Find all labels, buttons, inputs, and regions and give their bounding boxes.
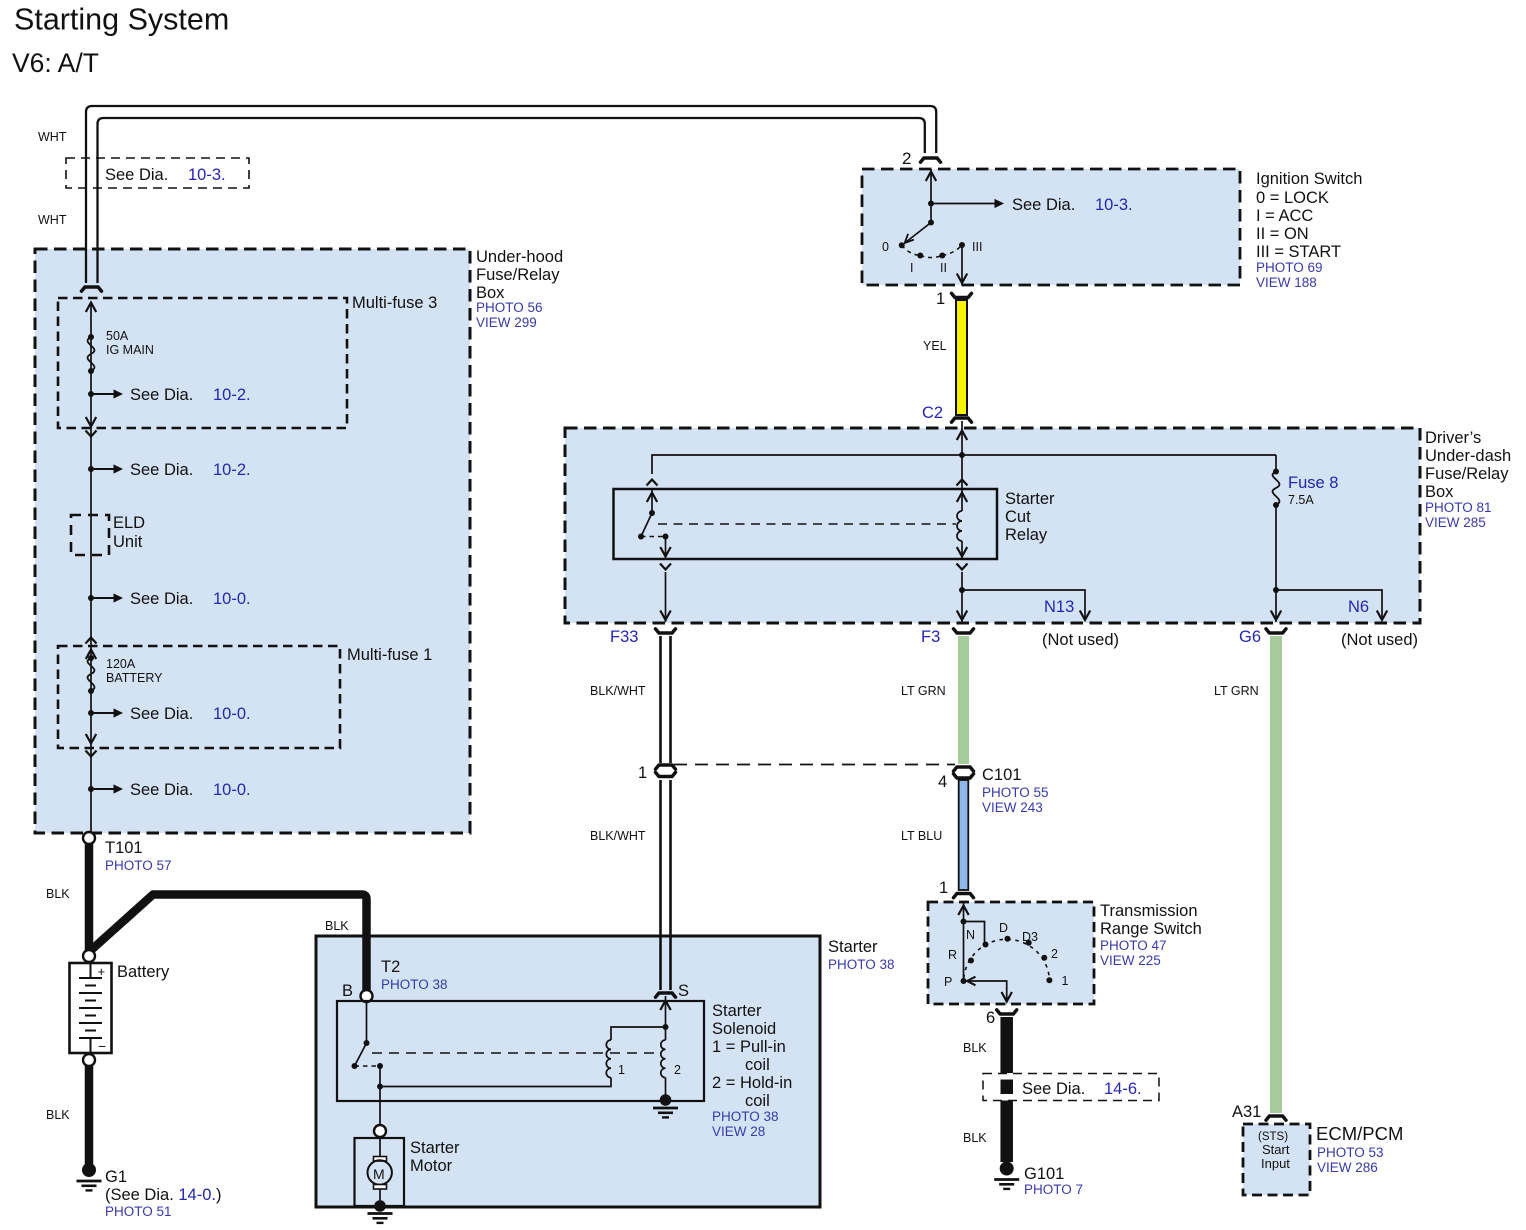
fuse 8 [1273,469,1279,475]
svg-text:PHOTO 57: PHOTO 57 [105,858,172,873]
connector cap bottom of LT BLU pin 1 [954,894,974,898]
ground at solenoid [660,1094,672,1106]
svg-text:10-0.: 10-0. [213,705,251,723]
TRS position contacts [961,978,967,984]
chevron below relay coil [957,564,968,570]
svg-text:G1: G1 [105,1168,127,1186]
svg-text:Range Switch: Range Switch [1100,920,1202,938]
svg-text:WHT: WHT [38,213,67,227]
svg-text:1: 1 [936,290,945,308]
svg-text:I: I [910,261,913,275]
svg-text:BATTERY: BATTERY [106,671,163,685]
node junction on top rail [959,452,965,458]
svg-text:coil: coil [745,1092,770,1110]
battery [70,963,112,1053]
svg-text:0 = LOCK: 0 = LOCK [1256,189,1329,207]
svg-text:0: 0 [882,240,889,254]
wire BLK thick from TRS to G101 [1000,1017,1013,1073]
wire WHT pair (inner) [98,118,925,283]
motor M [379,1137,381,1156]
terminal above battery [83,950,95,962]
chevron above multi-fuse 1 [86,638,97,644]
solenoid switch from B [366,1002,368,1043]
svg-text:B: B [342,982,353,1000]
svg-text:PHOTO 38: PHOTO 38 [828,957,895,972]
svg-text:Starter: Starter [712,1002,762,1020]
svg-text:2: 2 [674,1063,681,1077]
wire BLK/WHT pair F33 to break 1 [659,636,662,763]
svg-text:VIEW 243: VIEW 243 [982,800,1043,815]
coil 2 hold-in [665,1027,667,1040]
svg-text:M: M [373,1166,385,1182]
node see dia 10-0 (inside multi-fuse 1) [88,710,94,716]
starter solenoid box [337,1001,704,1101]
multi-fuse 3 box [58,298,347,428]
ground G101 [1000,1162,1014,1176]
svg-text:R: R [948,948,957,962]
svg-text:2: 2 [1051,947,1058,961]
coil 1 pull-in [606,1040,611,1078]
svg-text:BLK: BLK [46,1108,70,1122]
svg-text:II: II [940,261,947,275]
connector cap A31 [1266,1116,1286,1120]
fuse 50A IG MAIN [88,334,94,340]
wire BLK thick branch to starter B [89,895,367,992]
svg-text:Box: Box [1425,483,1454,501]
switch blade to position 0 [906,223,931,243]
svg-text:Starter: Starter [410,1139,460,1157]
connector cap F3 [954,629,974,633]
connector cap bottom of LT GRN [954,767,974,771]
wire LT GRN from G6 to A31 [1270,636,1282,1113]
svg-text:T101: T101 [105,839,143,857]
svg-text:Under-hood: Under-hood [476,248,563,266]
svg-text:PHOTO 56: PHOTO 56 [476,300,543,315]
svg-text:PHOTO 38: PHOTO 38 [381,977,448,992]
chevron into relay switch [647,480,658,486]
connector cap G6 [1266,629,1286,633]
dashed connector line 1 to 4 [674,764,955,766]
svg-text:N6: N6 [1348,598,1369,616]
wire BLK thick from T101 to battery [85,843,94,951]
svg-text:See Dia.: See Dia. [130,461,193,479]
see dia 14-6 box [983,1074,1159,1101]
svg-text:PHOTO 47: PHOTO 47 [1100,938,1167,953]
terminal below battery [83,1054,95,1066]
ground at starter motor [374,1200,386,1212]
svg-text:BLK: BLK [325,919,349,933]
svg-text:1: 1 [1062,974,1069,988]
svg-text:Battery: Battery [117,963,170,981]
wire coil 2 to ground [665,1078,667,1098]
multi-fuse 1 box [58,646,340,748]
main vertical wire in under-hood box [90,302,92,833]
svg-text:Driver’s: Driver’s [1425,429,1481,447]
svg-text:See Dia.: See Dia. [130,386,193,404]
svg-text:G101: G101 [1024,1165,1064,1183]
connector cap bottom of YEL wire C2 [952,418,972,422]
wire coil 1 bottom to switch [380,1078,611,1087]
svg-text:VIEW 225: VIEW 225 [1100,953,1161,968]
svg-text:6: 6 [986,1009,995,1027]
svg-text:BLK: BLK [963,1131,987,1145]
chevron below relay switch [660,564,671,570]
svg-text:See Dia.: See Dia. [130,781,193,799]
svg-text:IG MAIN: IG MAIN [106,343,154,357]
svg-text:III = START: III = START [1256,243,1341,261]
svg-text:P: P [944,975,952,989]
ignition switch box [862,169,1240,285]
wire from III contact down to terminal 1 [961,247,963,285]
svg-text:LT GRN: LT GRN [1214,684,1259,698]
svg-text:N: N [966,928,975,942]
connector cap top of YEL wire [952,293,972,297]
node see dia 10-0 (bottom) [88,786,94,792]
wire LT BLU [959,780,969,890]
svg-text:10-2.: 10-2. [213,461,251,479]
svg-text:BLK: BLK [46,887,70,901]
fuse 120A BATTERY [88,655,94,661]
connector cap wire break upper [656,765,676,769]
relay switch [651,489,653,513]
relay internal dashed link [658,523,956,525]
svg-text:VIEW 286: VIEW 286 [1317,1160,1378,1175]
svg-text:(Not used): (Not used) [1341,631,1418,649]
svg-text:VIEW 188: VIEW 188 [1256,275,1317,290]
position contacts I II III [917,253,923,259]
svg-text:VIEW 299: VIEW 299 [476,315,537,330]
svg-text:III: III [972,240,982,254]
svg-text:Unit: Unit [113,533,143,551]
svg-text:BLK: BLK [963,1041,987,1055]
svg-text:PHOTO 81: PHOTO 81 [1425,500,1492,515]
svg-text:PHOTO 51: PHOTO 51 [105,1204,172,1219]
dashed selector arc [964,939,1050,978]
connector cap F33 [656,629,676,633]
switch pivot [928,220,934,226]
svg-text:I = ACC: I = ACC [1256,207,1313,225]
svg-text:Relay: Relay [1005,526,1048,544]
svg-text:C101: C101 [982,766,1021,784]
svg-text:ELD: ELD [113,514,145,532]
transmission range switch box [928,902,1094,1004]
svg-text:See Dia.: See Dia. [130,705,193,723]
svg-text:Solenoid: Solenoid [712,1020,776,1038]
wire BLK thick to G1 [85,1065,94,1165]
node see dia 10-2 (inside multi-fuse 3) [88,391,94,397]
connector cap terminal 2 of ignition switch [921,158,941,162]
svg-text:Transmission: Transmission [1100,902,1198,920]
wire into TRS [963,903,965,981]
svg-text:2 = Hold-in: 2 = Hold-in [712,1074,792,1092]
svg-text:YEL: YEL [923,339,947,353]
relay coil [961,489,963,511]
wire YEL [956,300,967,415]
svg-text:10-0.: 10-0. [213,590,251,608]
connector cap at S [656,993,676,997]
svg-text:LT BLU: LT BLU [901,829,942,843]
wire S into solenoid [665,996,667,1027]
wire BLK/WHT pair break to S [659,780,662,990]
wire from C2 into driver's box [961,421,963,489]
svg-text:BLK/WHT: BLK/WHT [590,829,646,843]
svg-text:LT GRN: LT GRN [901,684,946,698]
wire LT GRN from F3 to C101 [958,636,969,764]
starter box [316,936,820,1207]
arrow down at bottom of multi-fuse 1 [86,734,96,744]
svg-text:Starting System: Starting System [14,3,229,37]
svg-text:Multi-fuse 3: Multi-fuse 3 [352,294,437,312]
starter cut relay box [614,489,998,559]
wire fuse 8 to G6 with N6 branch [1275,505,1277,622]
svg-text:+: + [98,964,106,979]
chevron into relay coil [957,480,968,486]
svg-text:See Dia.: See Dia. [1022,1080,1085,1098]
arrow down at bottom of multi-fuse 3 [86,417,96,427]
svg-text:50A: 50A [106,329,129,343]
wire top rail across box [652,455,1276,474]
svg-text:10-3.: 10-3. [1095,196,1133,214]
chevron below multi-fuse 3 [86,431,97,437]
svg-text:D3: D3 [1022,930,1038,944]
connector cap end of WHT pair at under-hood box [82,287,102,291]
svg-text:14-6.: 14-6. [1104,1080,1142,1098]
svg-text:1: 1 [638,764,647,782]
svg-text:G6: G6 [1239,628,1261,646]
driver's under-dash fuse/relay box [565,428,1420,623]
svg-text:Fuse/Relay: Fuse/Relay [476,266,560,284]
svg-text:Under-dash: Under-dash [1425,447,1511,465]
arrow up at top of multi-fuse 1 [86,650,96,660]
svg-text:Fuse 8: Fuse 8 [1288,474,1338,492]
svg-text:coil: coil [745,1056,770,1074]
ecm/pcm box [1243,1124,1310,1195]
svg-text:See Dia.: See Dia. [130,590,193,608]
solenoid mechanical dashed link [372,1052,660,1054]
wire from terminal 2 into switch [930,169,932,223]
See Dia. 10-3 dashed box (top left) [66,158,249,188]
svg-text:N13: N13 [1044,598,1074,616]
link to N contact [964,922,985,944]
svg-text:1 = Pull-in: 1 = Pull-in [712,1038,786,1056]
svg-text:PHOTO 38: PHOTO 38 [712,1109,779,1124]
svg-text:1: 1 [939,879,948,897]
svg-text:Starter: Starter [828,938,878,956]
under-hood fuse/relay box [35,249,470,833]
svg-text:D: D [999,921,1008,935]
svg-text:VIEW 28: VIEW 28 [712,1124,765,1139]
svg-text:VIEW 285: VIEW 285 [1425,515,1486,530]
svg-text:PHOTO 55: PHOTO 55 [982,785,1049,800]
ELD unit box [71,515,109,555]
node see dia 10-0 (below ELD) [88,595,94,601]
svg-text:PHOTO 53: PHOTO 53 [1317,1145,1384,1160]
svg-text:Fuse/Relay: Fuse/Relay [1425,465,1509,483]
ground G1 [82,1163,96,1177]
node to see dia 10-3 [928,201,934,207]
node see dia 10-2 (below multi-fuse 3) [88,466,94,472]
svg-text:−: − [98,1038,106,1054]
connector cap wire break lower [656,772,676,776]
svg-text:2: 2 [902,149,911,168]
wire from P out of TRS [968,981,1007,1002]
svg-text:10-2.: 10-2. [213,386,251,404]
svg-text:See Dia.: See Dia. [105,166,168,184]
wire BLK thick below 14-6 [1000,1101,1013,1163]
svg-text:1: 1 [618,1063,625,1077]
terminal to starter motor [374,1125,386,1137]
svg-text:PHOTO 7: PHOTO 7 [1024,1182,1083,1197]
svg-text:Start: Start [1262,1142,1290,1157]
svg-text:BLK/WHT: BLK/WHT [590,684,646,698]
svg-text:120A: 120A [106,657,136,671]
terminal T101 [83,832,95,844]
svg-text:4: 4 [938,773,947,791]
svg-text:F33: F33 [610,628,638,646]
wire relay switch to F33 [665,572,667,622]
arrow up at top of multi-fuse 3 [86,303,96,313]
svg-text:(Not used): (Not used) [1042,631,1119,649]
svg-text:V6: A/T: V6: A/T [12,48,99,78]
wire WHT pair from under-hood box to ignition switch (outer) [86,106,936,283]
svg-text:T2: T2 [381,958,400,976]
svg-text:7.5A: 7.5A [1288,493,1314,507]
svg-text:Ignition Switch: Ignition Switch [1256,170,1362,188]
svg-text:Starter: Starter [1005,490,1055,508]
svg-text:II = ON: II = ON [1256,225,1309,243]
svg-text:C2: C2 [922,404,943,422]
starter motor box [355,1138,405,1206]
svg-text:10-3.: 10-3. [188,166,226,184]
branch to pull-in coil 1 [611,1027,666,1040]
svg-text:Multi-fuse 1: Multi-fuse 1 [347,646,432,664]
svg-text:10-0.: 10-0. [213,781,251,799]
svg-text:See Dia.: See Dia. [1012,196,1075,214]
svg-text:WHT: WHT [38,130,67,144]
wire relay coil to F3 with N13 branch [961,572,963,622]
svg-text:Motor: Motor [410,1157,453,1175]
svg-text:Input: Input [1261,1156,1290,1171]
svg-text:PHOTO 69: PHOTO 69 [1256,260,1323,275]
chevron below multi-fuse 1 [86,751,97,757]
svg-text:ECM/PCM: ECM/PCM [1316,1123,1403,1144]
svg-text:Cut: Cut [1005,508,1031,526]
svg-text:A31: A31 [1232,1103,1261,1121]
svg-text:F3: F3 [921,628,940,646]
svg-text:(See Dia. 14-0.): (See Dia. 14-0.) [105,1186,221,1204]
svg-text:S: S [678,982,689,1000]
